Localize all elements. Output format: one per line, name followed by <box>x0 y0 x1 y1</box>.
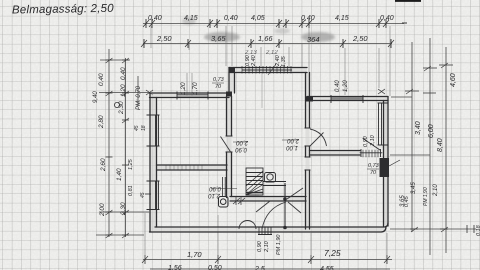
svg-text:0,73: 0,73 <box>213 77 225 83</box>
svg-text:1,56: 1,56 <box>168 265 182 270</box>
svg-text:3,45: 3,45 <box>411 182 417 194</box>
svg-text:PM 1,90: PM 1,90 <box>423 187 429 206</box>
svg-text:0,40: 0,40 <box>120 67 127 80</box>
svg-text:2,10: 2,10 <box>264 240 270 253</box>
svg-text:0,73: 0,73 <box>368 163 380 169</box>
svg-text:45: 45 <box>140 192 146 198</box>
svg-text:0,45: 0,45 <box>404 195 410 207</box>
svg-text:70: 70 <box>370 170 377 176</box>
svg-text:1,25: 1,25 <box>128 158 134 170</box>
svg-text:1,35: 1,35 <box>281 55 287 67</box>
svg-text:2,30: 2,30 <box>120 202 127 216</box>
svg-text:3,65: 3,65 <box>211 34 226 43</box>
svg-text:2,10: 2,10 <box>208 192 221 198</box>
svg-text:1,66: 1,66 <box>258 34 273 43</box>
svg-text:4,60: 4,60 <box>450 73 457 87</box>
svg-text:0,40: 0,40 <box>335 80 341 92</box>
svg-text:0,90: 0,90 <box>209 185 221 191</box>
svg-text:1,70: 1,70 <box>192 82 199 95</box>
svg-text:2,13: 2,13 <box>244 50 257 56</box>
svg-text:18: 18 <box>141 125 147 131</box>
svg-text:0,90: 0,90 <box>363 135 369 147</box>
svg-text:4,15: 4,15 <box>184 15 198 22</box>
svg-text:0,40: 0,40 <box>148 15 162 22</box>
svg-text:0,90: 0,90 <box>235 146 247 152</box>
svg-text:0,81: 0,81 <box>128 185 134 196</box>
svg-text:2,50: 2,50 <box>352 34 368 43</box>
svg-text:2,40: 2,40 <box>251 54 257 67</box>
svg-text:45: 45 <box>134 125 140 131</box>
svg-text:PM 1,90: PM 1,90 <box>276 234 282 255</box>
svg-text:3,40: 3,40 <box>415 121 422 135</box>
svg-text:8,40: 8,40 <box>437 138 444 152</box>
svg-text:2,30: 2,30 <box>118 101 125 115</box>
svg-text:2,5: 2,5 <box>254 266 265 270</box>
svg-text:7,25: 7,25 <box>324 248 341 258</box>
svg-text:1,20: 1,20 <box>343 80 349 92</box>
svg-text:2,80: 2,80 <box>98 115 105 129</box>
svg-text:9,40: 9,40 <box>93 91 99 103</box>
svg-text:4,15: 4,15 <box>335 15 349 22</box>
svg-text:Belmagasság: 2,50: Belmagasság: 2,50 <box>12 3 114 17</box>
svg-text:0,40: 0,40 <box>98 73 105 86</box>
svg-text:2,00: 2,00 <box>99 203 106 217</box>
svg-text:2,50: 2,50 <box>156 34 172 43</box>
svg-text:2,60: 2,60 <box>100 158 107 172</box>
svg-text:4,55: 4,55 <box>320 266 334 270</box>
svg-text:0,40: 0,40 <box>301 15 315 22</box>
svg-text:70: 70 <box>215 84 222 90</box>
svg-text:0,18: 0,18 <box>476 224 480 236</box>
svg-text:0,90: 0,90 <box>257 240 263 252</box>
svg-text:1,40: 1,40 <box>116 168 123 181</box>
svg-text:1,00: 1,00 <box>286 144 298 150</box>
svg-text:0,50: 0,50 <box>208 265 222 270</box>
svg-text:0,40: 0,40 <box>380 15 394 22</box>
svg-text:2,10: 2,10 <box>370 134 376 147</box>
svg-text:PM: 0,70: PM: 0,70 <box>136 85 142 110</box>
svg-text:0,40: 0,40 <box>224 15 238 22</box>
svg-text:1,20: 1,20 <box>120 84 127 97</box>
svg-text:2,10: 2,10 <box>433 184 439 197</box>
svg-text:1,70: 1,70 <box>187 250 202 259</box>
svg-text:6,00: 6,00 <box>428 124 435 138</box>
svg-text:4,05: 4,05 <box>251 15 265 22</box>
svg-text:2,12: 2,12 <box>265 50 278 56</box>
svg-text:1,20: 1,20 <box>180 82 187 95</box>
